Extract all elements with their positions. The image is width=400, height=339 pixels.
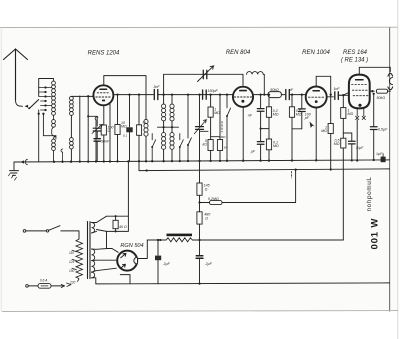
svg-text:MΩ: MΩ bbox=[121, 125, 127, 129]
svg-text:001 W: 001 W bbox=[370, 218, 381, 250]
svg-text:REN 804: REN 804 bbox=[226, 50, 251, 56]
svg-text:0,5µF: 0,5µF bbox=[378, 128, 388, 132]
svg-text:pF: pF bbox=[304, 116, 310, 120]
svg-text:RES 164: RES 164 bbox=[343, 50, 368, 56]
svg-text:50kΩ: 50kΩ bbox=[270, 88, 279, 92]
svg-text:Ω: Ω bbox=[205, 188, 208, 192]
svg-text:MΩ: MΩ bbox=[273, 144, 279, 148]
svg-text:0,2MΩ: 0,2MΩ bbox=[208, 197, 219, 201]
svg-text:kΩ: kΩ bbox=[202, 143, 207, 147]
svg-text:Ω: Ω bbox=[205, 217, 208, 221]
svg-text:220: 220 bbox=[69, 281, 76, 285]
svg-text:0,6 A: 0,6 A bbox=[40, 279, 47, 283]
svg-text:Ω: Ω bbox=[108, 129, 111, 133]
svg-text:MΩ: MΩ bbox=[334, 142, 340, 146]
svg-text:nohpomuL: nohpomuL bbox=[366, 176, 373, 211]
svg-text:REN 1004: REN 1004 bbox=[302, 50, 330, 56]
svg-text:MΩ: MΩ bbox=[321, 129, 327, 133]
svg-text:MΩ: MΩ bbox=[296, 112, 302, 116]
svg-text:125: 125 bbox=[69, 260, 75, 264]
svg-text:3nF: 3nF bbox=[153, 85, 160, 89]
svg-text:50nF: 50nF bbox=[101, 139, 110, 143]
svg-text:0,1: 0,1 bbox=[123, 134, 128, 138]
svg-text:110: 110 bbox=[69, 251, 74, 255]
svg-text:RGN 504: RGN 504 bbox=[120, 243, 143, 249]
svg-text:50: 50 bbox=[143, 121, 147, 125]
svg-text:1µF: 1µF bbox=[376, 152, 383, 156]
svg-text:50kΩ: 50kΩ bbox=[377, 96, 386, 100]
svg-text:MΩ: MΩ bbox=[348, 112, 354, 116]
svg-text:MΩ: MΩ bbox=[214, 111, 220, 115]
svg-text:1MΩ: 1MΩ bbox=[219, 135, 226, 139]
svg-text:MΩ: MΩ bbox=[273, 112, 279, 116]
svg-text:40 Ω: 40 Ω bbox=[119, 225, 127, 229]
svg-text:2/µF: 2/µF bbox=[355, 146, 364, 150]
svg-text:2µF: 2µF bbox=[205, 262, 213, 266]
svg-text:5A: 5A bbox=[224, 146, 228, 150]
svg-text:( RE 134 ): ( RE 134 ) bbox=[341, 58, 368, 64]
svg-text:150pF: 150pF bbox=[208, 89, 219, 93]
svg-text:1nF: 1nF bbox=[333, 87, 340, 91]
svg-text:150: 150 bbox=[69, 269, 75, 273]
svg-text:RENS 1204: RENS 1204 bbox=[88, 51, 120, 57]
svg-text:2µF: 2µF bbox=[163, 262, 171, 266]
